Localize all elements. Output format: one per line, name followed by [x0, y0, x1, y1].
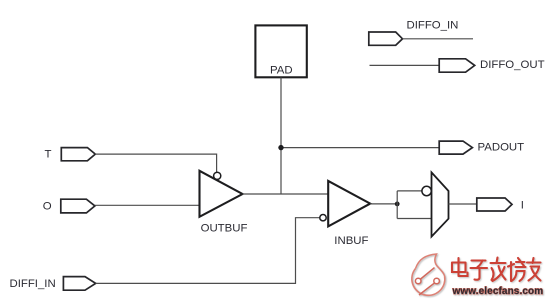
- wire to mux upper input: [397, 190, 422, 192]
- wire OUTBUF output to INBUF input: [243, 193, 329, 195]
- svg-text:PAD: PAD: [270, 65, 293, 77]
- pin T: [61, 148, 95, 161]
- wire PAD to OUTBUF output: [280, 78, 282, 194]
- bubble OUTBUF enable: [214, 172, 221, 179]
- 电: [452, 258, 468, 276]
- PAD box: [255, 25, 306, 77]
- 烧: [508, 258, 526, 281]
- svg-text:INBUF: INBUF: [334, 235, 368, 247]
- svg-text:T: T: [45, 149, 52, 161]
- wire DIFFO_OUT stub: [370, 64, 440, 66]
- svg-text:OUTBUF: OUTBUF: [201, 222, 248, 234]
- svg-text:www.elecfans.com: www.elecfans.com: [452, 286, 544, 297]
- bubble INBUF control: [320, 215, 326, 221]
- buffer INBUF: [328, 181, 370, 227]
- wire to mux lower input: [397, 218, 431, 220]
- bubble mux upper input: [422, 186, 431, 195]
- svg-text:DIFFO_IN: DIFFO_IN: [407, 19, 459, 31]
- svg-text:O: O: [43, 201, 52, 213]
- junction PAD/PADOUT: [278, 145, 283, 150]
- svg-text:DIFFO_OUT: DIFFO_OUT: [480, 59, 545, 71]
- wire INBUF output to junction: [370, 203, 397, 205]
- svg-text:DIFFI_IN: DIFFI_IN: [10, 278, 56, 290]
- buffer OUTBUF: [200, 171, 243, 217]
- 友: [527, 258, 541, 281]
- watermark logo elecfans: [412, 254, 445, 295]
- pin I: [477, 198, 512, 211]
- wire T to OUTBUF enable: [95, 154, 216, 172]
- wire DIFFI_IN to INBUF bubble: [96, 218, 320, 284]
- pin PADOUT: [439, 141, 472, 154]
- wire DIFFO_IN stub: [403, 38, 474, 40]
- wire mux output to I pin: [449, 203, 477, 205]
- pin DIFFI_IN: [63, 277, 95, 291]
- pin DIFFO_IN: [369, 32, 403, 45]
- pin DIFFO_OUT: [439, 59, 475, 72]
- mux U1: [432, 172, 449, 236]
- svg-text:PADOUT: PADOUT: [478, 142, 525, 154]
- 发: [491, 258, 506, 282]
- 子: [471, 261, 488, 280]
- junction INBUF output: [395, 202, 400, 207]
- wire PADOUT: [281, 147, 439, 149]
- watermark text 电子发烧友 (drawn strokes): [452, 258, 541, 282]
- wire O to OUTBUF input: [95, 204, 200, 206]
- svg-text:I: I: [521, 199, 524, 211]
- pin O: [61, 199, 95, 213]
- wire junction vertical: [396, 191, 398, 219]
